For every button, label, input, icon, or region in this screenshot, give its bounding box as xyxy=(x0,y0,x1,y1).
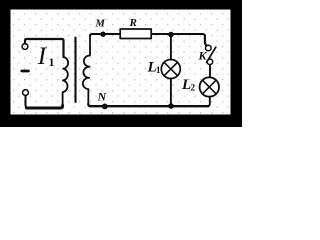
paper background xyxy=(0,0,242,129)
lamp L2: cross xyxy=(203,80,217,94)
primary winding Lp (coil bumps) xyxy=(63,57,69,106)
svg-text:1: 1 xyxy=(49,55,55,69)
terminal circle top xyxy=(22,44,28,50)
node M (junction dot) xyxy=(100,32,105,37)
wire: lamp L1 down to bottom rail xyxy=(170,79,172,106)
svg-text:1: 1 xyxy=(156,65,161,75)
scan border frame: bottom bar xyxy=(0,115,242,128)
wire: resistor to junction and right corner xyxy=(152,34,206,46)
lamp L1: cross xyxy=(164,62,177,75)
transformer core xyxy=(74,38,76,103)
node J1 (junction dot above L1) xyxy=(168,32,174,38)
bottom rail wire xyxy=(88,104,208,106)
lamp L1: bulb circle xyxy=(161,60,180,79)
scan border frame: left bar xyxy=(0,0,11,127)
switch K: upper contact circle xyxy=(206,45,212,51)
source loop: left-bottom wire xyxy=(26,96,29,108)
wire: lamp L2 to bottom rail corner xyxy=(208,97,210,106)
scan border frame: top bar xyxy=(0,0,242,10)
source loop: bottom wire (thick) xyxy=(27,106,63,109)
svg-text:N: N xyxy=(97,90,108,104)
terminal circle bottom xyxy=(23,90,29,96)
svg-text:M: M xyxy=(95,19,106,30)
switch K: blade xyxy=(207,47,216,62)
node N (junction dot) xyxy=(102,104,108,110)
wire: junction J1 down to lamp L1 xyxy=(170,35,172,60)
lamp L2: bulb circle xyxy=(200,77,219,96)
node J2 (junction dot on bottom rail) xyxy=(168,103,174,109)
resistor R body xyxy=(120,29,151,39)
switch K: lower contact circle xyxy=(207,59,213,65)
minus polarity mark xyxy=(22,70,29,73)
svg-text:2: 2 xyxy=(191,83,196,93)
svg-text:K: K xyxy=(198,49,208,63)
secondary winding Ls (coil bumps, bulge left) xyxy=(83,35,90,105)
source I1 loop: top wire xyxy=(25,39,64,57)
svg-text:R: R xyxy=(129,17,137,29)
wire: switch to lamp L2 xyxy=(209,65,211,78)
scan border frame: right bar xyxy=(231,0,243,127)
wire: secondary top corner to top rail xyxy=(90,34,120,36)
